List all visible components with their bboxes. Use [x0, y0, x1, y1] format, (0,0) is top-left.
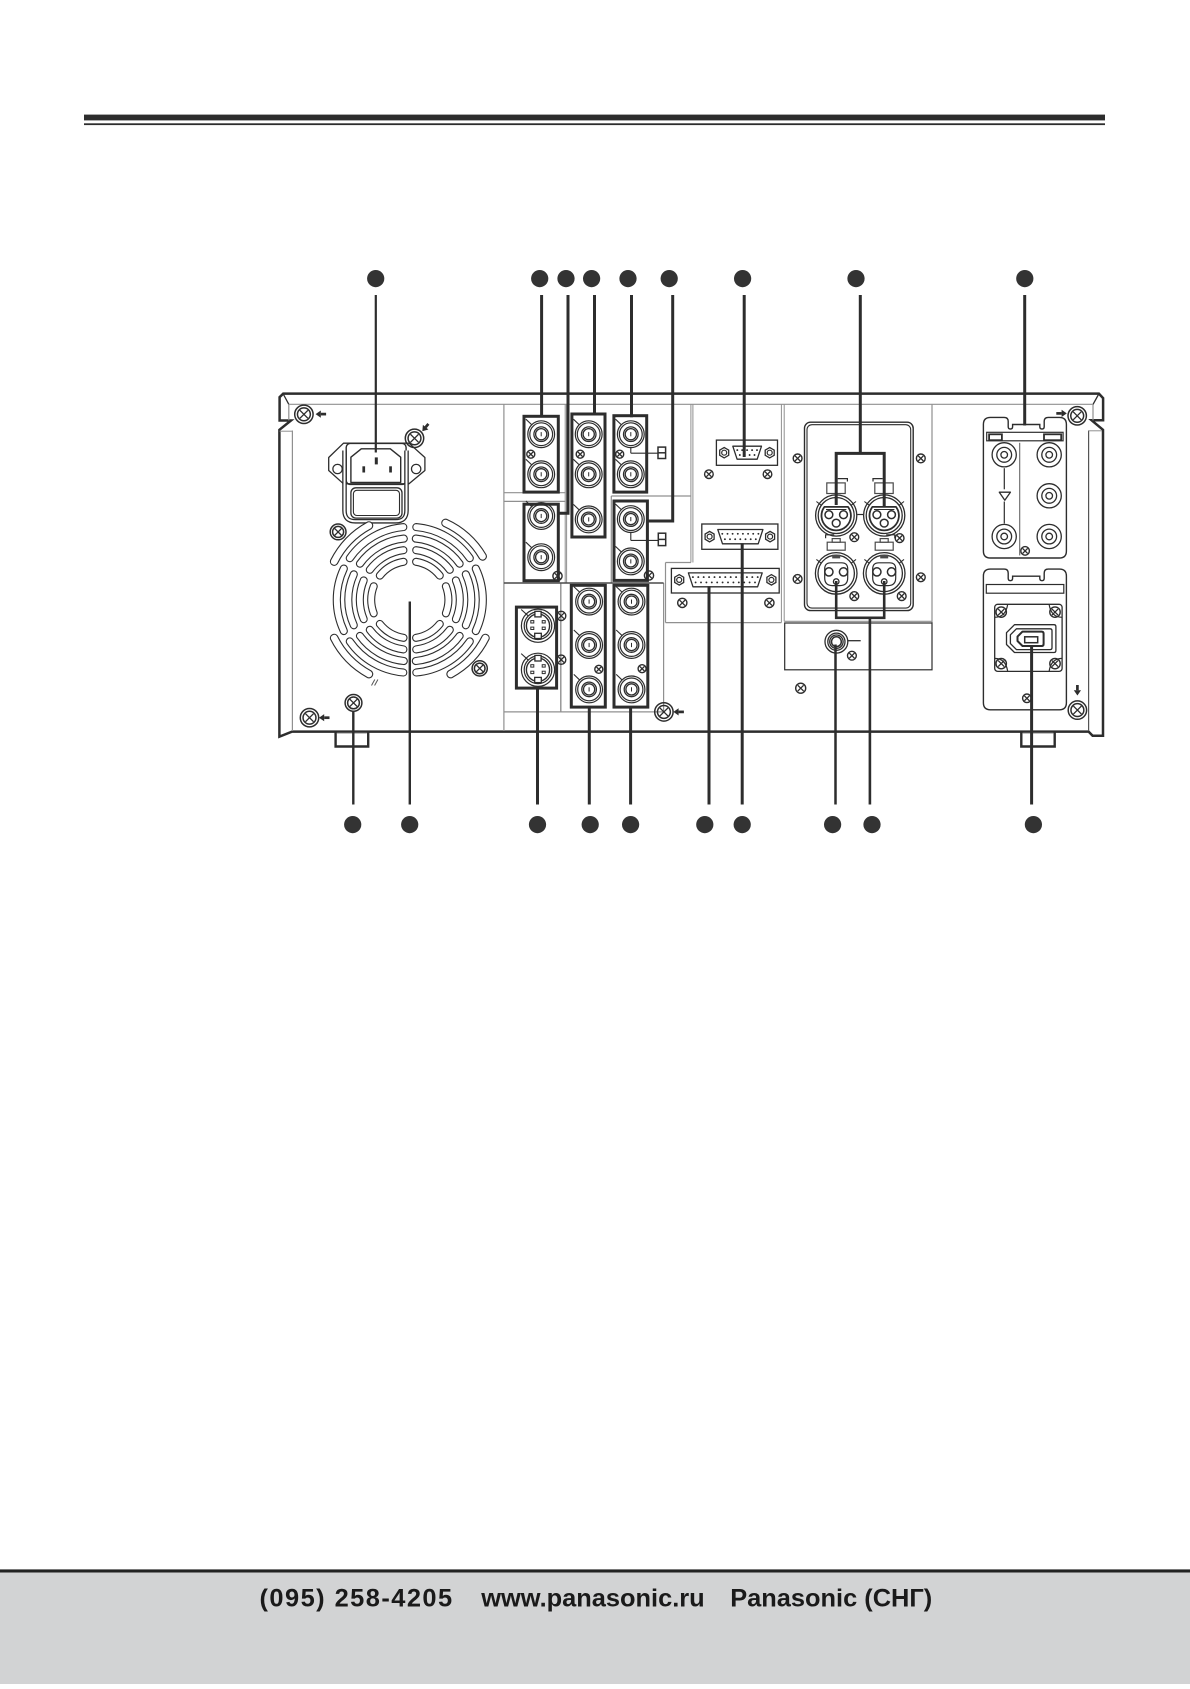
chassis inner bevel top-right [1093, 395, 1099, 405]
callout line to BNC group3 [630, 295, 633, 417]
footer rule [0, 1569, 1190, 1572]
callout line to BNC middle column [593, 295, 596, 416]
D-sub 15-pin [702, 524, 778, 549]
bottom callout dots [344, 816, 361, 833]
screw in group1 [527, 450, 535, 458]
callout line from FireWire [1030, 646, 1033, 805]
AC cord retainer bail [345, 451, 407, 522]
BNC 17 [616, 674, 622, 680]
D-sub 25-pin [671, 568, 779, 593]
screw top-left corner with arrow [295, 405, 313, 423]
BNC 1 [526, 419, 532, 425]
BNC lower-middle triple frame [571, 585, 605, 707]
RCA jack top-left [992, 443, 1016, 467]
loop-through arrow symbol [1003, 468, 1005, 489]
BNC group mid-right pair frame [614, 501, 647, 580]
S-video block frame [516, 607, 556, 688]
RCA jack top-right [1037, 443, 1061, 467]
callout line to RCA section [1023, 295, 1026, 426]
screws below D-sub9 [705, 470, 714, 479]
chassis inner bevel top-left [284, 395, 289, 405]
callout line from lower-right BNC column [629, 707, 632, 804]
chassis inner face right edge [1088, 431, 1090, 732]
callout line from S-video block [536, 688, 539, 804]
screw below FireWire [1023, 694, 1032, 703]
FireWire mounting plate [995, 604, 1062, 671]
FireWire 6-pin connector [1007, 625, 1056, 653]
FireWire label bar [986, 585, 1064, 594]
BNC middle triple frame [572, 414, 605, 537]
section separator hairlines [503, 405, 505, 732]
BNC 8 [616, 419, 622, 425]
BNC 2 [526, 459, 532, 465]
BNC group lower-left pair frame [524, 504, 558, 581]
callout line from D-sub25 [708, 586, 711, 804]
chassis right foot [1021, 732, 1054, 747]
screw lower-right [638, 665, 646, 673]
screw lower-middle [595, 665, 603, 673]
callout line to BNC group4 (bend) [648, 295, 673, 521]
screw bottom-right of fan [472, 661, 487, 676]
BNC 15 [616, 587, 622, 593]
svg-text:(095) 258-4205: (095) 258-4205 [260, 1585, 454, 1613]
ground mark below fan [372, 680, 375, 686]
screw in group4 [644, 571, 653, 580]
S-video connector 2 [521, 654, 528, 660]
XLR bottom-right [864, 559, 869, 563]
BNC 4 [526, 542, 532, 548]
top callout dots [367, 270, 384, 287]
chassis inner face left edge [291, 431, 293, 732]
RCA section label bar [987, 432, 1063, 441]
AC inlet socket body [346, 443, 406, 484]
screw top-right with arrow [1068, 407, 1086, 425]
XLR top-left [816, 502, 821, 506]
chassis inner face top edge [289, 403, 1093, 405]
callout bracket to upper XLR pair [836, 295, 884, 507]
BNC 12 [574, 587, 580, 593]
AC inlet right ear hole [412, 464, 421, 473]
BNC lower-right triple frame [614, 585, 648, 707]
AC retainer flap [351, 488, 402, 518]
screw near AC inlet with arrow [405, 429, 423, 447]
callout line to BNC group1 [540, 295, 543, 417]
callout bracket from lower XLR pair [836, 581, 884, 805]
callout line from D-sub15 [741, 543, 744, 804]
screw in middle column [576, 450, 584, 458]
XLR top-right [864, 502, 869, 506]
screw in RCA section [1021, 547, 1030, 556]
screw near phono [848, 651, 857, 660]
fan grille [413, 558, 444, 579]
small screws near XLRs [850, 533, 859, 542]
BNC 5 [573, 419, 579, 425]
D-sub 9-pin RS-232 [716, 440, 777, 465]
screw below phono box [796, 683, 806, 693]
loop-through terminator square lower [630, 533, 632, 541]
BNC 11 [616, 546, 622, 552]
screw in group2 [553, 571, 562, 580]
phono jack [825, 630, 848, 653]
RCA section divider hairline [1019, 443, 1021, 556]
S-video connector 1 [521, 610, 528, 616]
FireWire plate corner screws [996, 607, 1006, 617]
RCA jack mid-right [1037, 484, 1061, 508]
FireWire plate corner gussets [995, 604, 1008, 617]
BNC group REF VIDEO upper pair frame [524, 416, 558, 492]
RCA jack bottom-left [992, 524, 1016, 548]
BNC 7 [573, 504, 579, 510]
BNC 16 [616, 630, 622, 636]
top heading double rule [84, 115, 1105, 121]
phono jack box [785, 623, 932, 670]
AC inlet left ear hole [333, 464, 342, 473]
svg-text:www.panasonic.ru: www.panasonic.ru [480, 1585, 704, 1613]
AC inlet flange [329, 443, 425, 484]
callout line from screw (bottom-left) [352, 711, 354, 805]
XLR bottom-left [816, 559, 821, 563]
BNC 14 [574, 674, 580, 680]
callout line to AC inlet [375, 295, 377, 453]
svg-text:Panasonic (СНГ): Panasonic (СНГ) [730, 1585, 932, 1613]
callout line from lower-middle BNC column [588, 707, 591, 804]
loop-through terminator square upper [630, 448, 632, 454]
BNC 13 [574, 630, 580, 636]
FireWire DV section plate [983, 569, 1066, 710]
BNC 10 [616, 504, 622, 510]
screw bottom-right with down arrow [1068, 701, 1086, 719]
screws at XLR plate corners [793, 454, 802, 463]
link mark between top XLRs [857, 514, 863, 516]
screws below D-sub25 [678, 598, 687, 607]
AC inlet C14 face [351, 449, 401, 483]
callout line to D-sub9 [743, 295, 746, 457]
chassis rear-panel outline [279, 394, 1103, 737]
RCA video section plate [983, 417, 1066, 558]
screw below AC inlet [330, 524, 346, 540]
chassis left foot [336, 732, 369, 747]
RCA jack bottom-right [1037, 524, 1061, 548]
footer gray band [0, 1573, 1190, 1684]
BNC group upper-right pair frame [614, 416, 647, 492]
callout line from phono jack [834, 645, 837, 805]
screw below fan-left (callout source) [345, 695, 362, 712]
screw bottom-left corner with arrow [300, 709, 318, 727]
BNC 9 [616, 459, 622, 465]
AC inlet pins [375, 457, 378, 464]
screws right of S-video [557, 611, 566, 620]
BNC 3 [526, 501, 532, 507]
BNC 6 [573, 459, 579, 465]
callout line to BNC group2 (bend) [560, 295, 569, 513]
XLR audio section plate [805, 422, 914, 610]
screw right of lower BNC area with arrow [655, 703, 673, 721]
screw in group3 [616, 450, 624, 458]
callout line from fan [409, 602, 411, 805]
